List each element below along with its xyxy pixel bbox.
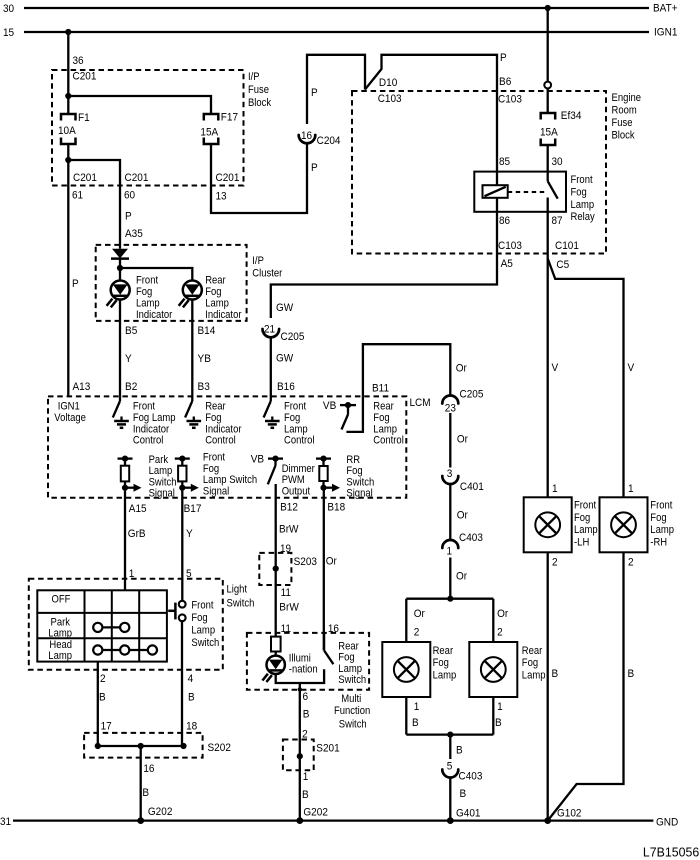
svg-text:Or: Or bbox=[456, 363, 467, 375]
svg-text:C204: C204 bbox=[317, 135, 341, 147]
LED front fog lamp indicator bbox=[107, 275, 173, 322]
svg-text:30: 30 bbox=[3, 3, 14, 15]
svg-text:IGN1: IGN1 bbox=[58, 401, 80, 413]
svg-text:Front: Front bbox=[284, 401, 306, 413]
lamp E1 Front Fog Lamp -LH bbox=[524, 497, 598, 552]
svg-text:Y: Y bbox=[186, 528, 193, 540]
ground node G202 middle bbox=[296, 817, 303, 824]
svg-text:1: 1 bbox=[414, 701, 420, 713]
svg-text:1: 1 bbox=[303, 771, 309, 783]
wire RH lamp ground to G102 bbox=[548, 552, 635, 820]
svg-text:B: B bbox=[552, 668, 559, 680]
svg-text:Indicator: Indicator bbox=[205, 309, 242, 321]
light switch park contacts bbox=[93, 623, 129, 632]
rear fog lamp switch blade bbox=[324, 633, 366, 686]
wire front indicator to LCM B2 bbox=[120, 299, 137, 396]
svg-text:16: 16 bbox=[143, 763, 154, 775]
svg-text:Lamp: Lamp bbox=[205, 298, 229, 310]
svg-text:15: 15 bbox=[3, 27, 14, 39]
wire D10 jog to B6 and down to relay 85 bbox=[365, 52, 522, 185]
svg-text:1: 1 bbox=[497, 701, 503, 713]
svg-text:Indicator: Indicator bbox=[133, 423, 170, 435]
svg-text:Control: Control bbox=[284, 435, 315, 447]
svg-text:S203: S203 bbox=[294, 556, 317, 568]
connector C103 pin D10 bbox=[378, 77, 402, 105]
svg-text:Light: Light bbox=[227, 583, 248, 595]
relay switch blade 30-87 bbox=[548, 181, 558, 199]
svg-text:Signal: Signal bbox=[203, 485, 229, 497]
svg-text:Switch: Switch bbox=[227, 597, 255, 609]
svg-text:Fog: Fog bbox=[574, 512, 590, 524]
splice S201 bbox=[283, 740, 340, 819]
rail 30 BAT+ bbox=[3, 3, 678, 16]
connector ring on BAT+ feed bbox=[544, 82, 551, 89]
wire fog switch pin 4 to S202 bbox=[182, 621, 197, 746]
engine room fuse block box bbox=[352, 91, 641, 254]
svg-text:VB: VB bbox=[251, 454, 264, 466]
I/P cluster box bbox=[96, 245, 283, 321]
svg-text:B: B bbox=[412, 717, 419, 729]
svg-text:S201: S201 bbox=[316, 743, 339, 755]
wire MFS pin 6 to S201 bbox=[298, 683, 310, 821]
wire light switch pin 2 to S202 bbox=[98, 662, 112, 746]
svg-text:1: 1 bbox=[552, 483, 558, 495]
svg-text:3: 3 bbox=[447, 468, 453, 480]
svg-text:B: B bbox=[99, 692, 106, 704]
wire C205-23 to C401 bbox=[450, 413, 468, 468]
svg-text:11: 11 bbox=[281, 587, 291, 599]
wire diode to indicators bbox=[119, 259, 121, 282]
svg-text:VB: VB bbox=[323, 400, 336, 412]
svg-text:Control: Control bbox=[205, 435, 236, 447]
LCM front fog lamp control driver switch bbox=[264, 396, 315, 446]
svg-text:YB: YB bbox=[198, 353, 211, 365]
svg-text:Fog: Fog bbox=[522, 657, 538, 669]
svg-text:Fog: Fog bbox=[346, 465, 362, 477]
svg-text:IGN1: IGN1 bbox=[654, 27, 677, 39]
svg-text:B16: B16 bbox=[277, 381, 295, 393]
svg-text:Rear: Rear bbox=[205, 275, 226, 287]
svg-text:P: P bbox=[311, 162, 318, 174]
svg-text:Lamp Switch: Lamp Switch bbox=[203, 474, 257, 486]
svg-text:C103: C103 bbox=[498, 240, 522, 252]
svg-text:Lamp: Lamp bbox=[571, 199, 595, 211]
svg-text:B: B bbox=[456, 744, 463, 756]
svg-text:C205: C205 bbox=[460, 389, 484, 401]
wire C204 up and over to D10 bbox=[307, 55, 365, 124]
svg-text:Fog: Fog bbox=[205, 412, 221, 424]
svg-text:L7B15056: L7B15056 bbox=[643, 846, 699, 860]
svg-text:Lamp: Lamp bbox=[191, 624, 215, 636]
svg-text:GND: GND bbox=[656, 817, 678, 829]
svg-text:B: B bbox=[188, 692, 195, 704]
svg-text:Fuse: Fuse bbox=[248, 84, 269, 96]
svg-text:F1: F1 bbox=[78, 112, 90, 124]
svg-text:LCM: LCM bbox=[410, 397, 431, 409]
LED rear fog lamp indicator bbox=[179, 275, 242, 322]
svg-text:B5: B5 bbox=[125, 325, 137, 337]
multi function switch box bbox=[247, 633, 370, 730]
wire IGN1 to fuse F1 (circuit 36) bbox=[68, 32, 96, 114]
svg-text:RR: RR bbox=[346, 454, 360, 466]
svg-text:Block: Block bbox=[248, 97, 272, 109]
svg-text:Or: Or bbox=[456, 570, 467, 582]
svg-text:A5: A5 bbox=[501, 258, 513, 270]
wire F17 out (circuit 13) to C204 bbox=[211, 144, 318, 214]
connector C403 pin 1 bbox=[442, 532, 483, 558]
svg-text:Park: Park bbox=[149, 454, 169, 466]
svg-text:Front: Front bbox=[136, 275, 158, 287]
svg-text:60: 60 bbox=[124, 190, 135, 202]
diode D1 bbox=[111, 249, 129, 259]
wire C403 to rear lamp split bbox=[450, 558, 467, 599]
wire split to left rear lamp bbox=[406, 599, 425, 642]
svg-text:G202: G202 bbox=[303, 807, 328, 819]
LCM RR fog switch signal input (resistor) bbox=[316, 454, 374, 500]
wire F1 out (circuit 61) to LCM A13 bbox=[68, 144, 97, 396]
svg-text:6: 6 bbox=[303, 691, 309, 703]
svg-text:-LH: -LH bbox=[574, 537, 589, 549]
svg-text:V: V bbox=[552, 362, 559, 374]
svg-text:Fog: Fog bbox=[338, 652, 354, 664]
svg-text:Fog: Fog bbox=[136, 286, 152, 298]
svg-text:21: 21 bbox=[264, 324, 275, 336]
wire Ef34 to relay pin 30 bbox=[499, 145, 563, 181]
svg-text:Or: Or bbox=[457, 433, 468, 445]
svg-text:C103: C103 bbox=[498, 94, 522, 106]
light switch contact table bbox=[37, 590, 167, 662]
svg-text:B11: B11 bbox=[372, 382, 389, 394]
svg-text:Lamp: Lamp bbox=[48, 650, 72, 662]
svg-text:Lamp: Lamp bbox=[136, 298, 160, 310]
rail 31 GND bbox=[0, 816, 678, 829]
svg-text:F17: F17 bbox=[221, 112, 238, 124]
svg-text:B6: B6 bbox=[499, 76, 511, 88]
svg-text:Fog: Fog bbox=[650, 512, 666, 524]
svg-text:2: 2 bbox=[100, 673, 106, 685]
svg-text:B: B bbox=[302, 789, 309, 801]
svg-text:30: 30 bbox=[552, 156, 563, 168]
I/P fuse block box bbox=[52, 70, 272, 186]
svg-text:G102: G102 bbox=[557, 808, 582, 820]
svg-text:Front: Front bbox=[574, 500, 596, 512]
svg-text:Fog: Fog bbox=[191, 612, 207, 624]
wire relay 87 split to front fog lamps bbox=[548, 259, 635, 498]
svg-text:10A: 10A bbox=[58, 125, 76, 137]
svg-text:Lamp: Lamp bbox=[433, 669, 457, 681]
wire resistor to LED bbox=[275, 652, 277, 656]
svg-text:GW: GW bbox=[276, 353, 294, 365]
svg-text:G401: G401 bbox=[456, 807, 481, 819]
svg-text:Rear: Rear bbox=[433, 645, 454, 657]
node C (branch to cluster) bbox=[65, 157, 71, 163]
LCM IGN1 voltage input label bbox=[54, 401, 86, 424]
svg-text:Indicator: Indicator bbox=[136, 309, 173, 321]
front fog lamp switch (momentary) bbox=[168, 599, 219, 649]
svg-text:V: V bbox=[628, 362, 635, 374]
wire S202 to G202 bbox=[141, 746, 173, 821]
svg-text:Lamp: Lamp bbox=[373, 423, 397, 435]
svg-text:2: 2 bbox=[628, 557, 634, 569]
wire to fuse F17 bbox=[68, 96, 211, 114]
svg-text:P: P bbox=[125, 211, 132, 223]
svg-text:B: B bbox=[460, 788, 467, 800]
svg-text:Rear: Rear bbox=[338, 640, 359, 652]
svg-text:31: 31 bbox=[0, 816, 11, 828]
svg-text:13: 13 bbox=[216, 191, 227, 203]
svg-text:Switch: Switch bbox=[191, 637, 219, 649]
svg-text:Lamp: Lamp bbox=[522, 669, 546, 681]
svg-text:-nation: -nation bbox=[289, 663, 318, 675]
relay pin 86 wire to C205 bbox=[271, 198, 522, 318]
wire LH lamp ground to G102 bbox=[548, 552, 559, 820]
svg-text:2: 2 bbox=[414, 626, 420, 638]
svg-text:Rear: Rear bbox=[373, 401, 394, 413]
connector C403 pin 5 bbox=[442, 761, 482, 783]
LCM front fog indicator driver switch bbox=[113, 396, 176, 446]
ground node G102 bbox=[544, 808, 581, 824]
svg-text:Engine: Engine bbox=[612, 92, 642, 104]
svg-text:Voltage: Voltage bbox=[54, 412, 86, 424]
svg-text:61: 61 bbox=[72, 190, 83, 202]
svg-text:BrW: BrW bbox=[279, 524, 299, 536]
svg-text:Signal: Signal bbox=[346, 488, 372, 500]
svg-text:GW: GW bbox=[276, 302, 294, 314]
svg-text:B14: B14 bbox=[198, 325, 216, 337]
svg-text:C205: C205 bbox=[281, 331, 305, 343]
svg-text:B2: B2 bbox=[125, 381, 137, 393]
svg-text:Fuse: Fuse bbox=[612, 117, 633, 129]
LCM front fog lamp switch signal input (resistor) bbox=[175, 452, 257, 498]
svg-text:C5: C5 bbox=[556, 259, 569, 271]
light switch head contacts bbox=[93, 645, 157, 654]
wire rear lamps join bbox=[406, 697, 502, 735]
svg-text:C201: C201 bbox=[73, 71, 97, 83]
rail 15 IGN1 bbox=[3, 27, 677, 40]
svg-text:15A: 15A bbox=[540, 126, 558, 138]
svg-text:BrW: BrW bbox=[279, 602, 299, 614]
svg-text:Or: Or bbox=[457, 510, 468, 522]
svg-text:Room: Room bbox=[612, 105, 637, 117]
wire LCM B18 to rear fog lamp switch bbox=[324, 488, 345, 651]
relay coil bbox=[483, 185, 508, 198]
svg-text:Fog: Fog bbox=[373, 412, 389, 424]
svg-text:C201: C201 bbox=[125, 172, 149, 184]
svg-text:GrB: GrB bbox=[128, 528, 146, 540]
svg-text:Fog: Fog bbox=[433, 657, 449, 669]
svg-text:Fog: Fog bbox=[284, 412, 300, 424]
svg-text:Control: Control bbox=[373, 435, 404, 447]
svg-text:A35: A35 bbox=[125, 228, 143, 240]
svg-text:Signal: Signal bbox=[149, 488, 175, 500]
svg-text:C201: C201 bbox=[216, 172, 240, 184]
svg-text:Or: Or bbox=[497, 608, 508, 620]
LED illumination bbox=[262, 652, 317, 682]
svg-text:-RH: -RH bbox=[650, 537, 667, 549]
svg-text:B3: B3 bbox=[198, 381, 210, 393]
node E rear lamp split bbox=[406, 596, 493, 602]
lamp E2 Front Fog Lamp -RH bbox=[600, 497, 675, 552]
node on rail 30 (BAT+ feed) bbox=[545, 5, 551, 11]
ground node G401 bbox=[447, 817, 454, 824]
svg-text:C403: C403 bbox=[459, 532, 483, 544]
svg-text:B: B bbox=[142, 787, 149, 799]
wire rear indicator to LCM B3 bbox=[192, 299, 215, 396]
svg-text:C201: C201 bbox=[73, 172, 97, 184]
svg-text:Front: Front bbox=[650, 500, 672, 512]
fuse Ef34 15A bbox=[540, 110, 581, 145]
svg-text:A15: A15 bbox=[129, 503, 147, 515]
svg-text:1: 1 bbox=[447, 545, 453, 557]
svg-text:C103: C103 bbox=[378, 93, 402, 105]
svg-text:C403: C403 bbox=[459, 770, 483, 782]
light switch box bbox=[29, 579, 255, 670]
svg-text:4: 4 bbox=[188, 673, 194, 685]
svg-text:C101: C101 bbox=[555, 240, 579, 252]
wire LCM B17 to front fog lamp switch bbox=[182, 488, 201, 601]
svg-text:Switch: Switch bbox=[346, 476, 374, 488]
splice S203 bbox=[259, 553, 317, 635]
svg-text:1: 1 bbox=[628, 483, 634, 495]
svg-text:Output: Output bbox=[282, 485, 310, 497]
svg-text:S202: S202 bbox=[208, 742, 231, 754]
svg-text:23: 23 bbox=[445, 403, 456, 415]
svg-text:Dimmer: Dimmer bbox=[282, 463, 315, 475]
node B (fuse feed split) bbox=[65, 93, 71, 99]
svg-text:Indicator: Indicator bbox=[205, 423, 242, 435]
svg-text:Lamp: Lamp bbox=[650, 524, 674, 536]
svg-text:5: 5 bbox=[447, 761, 453, 773]
ground node G202 left bbox=[137, 817, 144, 824]
svg-text:Switch: Switch bbox=[338, 674, 366, 686]
svg-text:P: P bbox=[311, 87, 318, 99]
wire C401 to C403 bbox=[450, 484, 468, 540]
svg-text:Lamp: Lamp bbox=[574, 524, 598, 536]
svg-text:Relay: Relay bbox=[571, 211, 596, 223]
svg-text:Lamp: Lamp bbox=[338, 663, 362, 675]
wire BAT+ to Ef34 bbox=[547, 8, 549, 82]
svg-text:I/P: I/P bbox=[252, 255, 264, 267]
svg-text:Fog Lamp: Fog Lamp bbox=[133, 412, 176, 424]
svg-text:36: 36 bbox=[73, 55, 84, 67]
svg-text:B: B bbox=[495, 717, 502, 729]
svg-text:Fog: Fog bbox=[205, 286, 221, 298]
connector C401 pin 3 bbox=[442, 468, 484, 493]
splice S202 bbox=[84, 733, 231, 758]
svg-text:Lamp: Lamp bbox=[48, 627, 72, 639]
svg-text:86: 86 bbox=[499, 215, 510, 227]
connector C205 pin 21 bbox=[263, 324, 305, 344]
node D (indicator split) bbox=[117, 265, 123, 271]
wire branch to rear indicator bbox=[120, 268, 192, 281]
svg-text:Front: Front bbox=[571, 174, 593, 186]
LCM park lamp switch signal input (resistor) bbox=[118, 454, 177, 500]
lamp E3 Rear Fog Lamp left bbox=[382, 642, 456, 697]
connector C205 pin 23 bbox=[442, 389, 483, 415]
LCM rear fog indicator driver switch bbox=[185, 396, 242, 446]
svg-text:Front: Front bbox=[133, 401, 155, 413]
svg-text:Rear: Rear bbox=[205, 401, 226, 413]
wire LCM B11 up and over to C205-23 bbox=[363, 344, 467, 396]
svg-text:Control: Control bbox=[133, 435, 164, 447]
svg-text:2: 2 bbox=[552, 557, 558, 569]
svg-text:16: 16 bbox=[301, 130, 312, 142]
svg-text:18: 18 bbox=[186, 720, 197, 732]
svg-text:Or: Or bbox=[326, 556, 337, 568]
svg-text:B18: B18 bbox=[327, 502, 345, 514]
wire ring to fuse Ef34 bbox=[547, 88, 549, 113]
svg-text:G202: G202 bbox=[148, 806, 173, 818]
svg-text:85: 85 bbox=[499, 156, 510, 168]
fuse F17 15A bbox=[200, 112, 238, 144]
svg-text:PWM: PWM bbox=[282, 474, 305, 486]
svg-text:Function: Function bbox=[334, 705, 370, 717]
node A (IGN1 tap) bbox=[65, 29, 71, 35]
svg-text:Switch: Switch bbox=[339, 718, 367, 730]
svg-text:Lamp: Lamp bbox=[149, 465, 173, 477]
wire branch 60 to I/P cluster bbox=[68, 160, 148, 249]
svg-text:2: 2 bbox=[497, 626, 503, 638]
lamp E4 Rear Fog Lamp right bbox=[469, 642, 545, 697]
relay U1 Front Fog Lamp Relay box bbox=[474, 172, 595, 224]
svg-text:Fog: Fog bbox=[203, 463, 219, 475]
relay pin 87 stub bbox=[548, 198, 579, 272]
fuse F1 10A bbox=[58, 112, 90, 144]
svg-text:C401: C401 bbox=[460, 481, 484, 493]
svg-text:P: P bbox=[500, 52, 507, 64]
svg-text:Multi: Multi bbox=[341, 693, 361, 705]
svg-text:15A: 15A bbox=[200, 126, 218, 138]
wire LCM B12 dimmer output to S203 bbox=[276, 484, 299, 637]
svg-text:Front: Front bbox=[203, 452, 225, 464]
svg-text:B12: B12 bbox=[280, 502, 298, 514]
LCM box bbox=[48, 396, 431, 497]
svg-text:Cluster: Cluster bbox=[252, 267, 282, 279]
svg-text:Y: Y bbox=[125, 353, 132, 365]
svg-text:B: B bbox=[628, 668, 635, 680]
wire C205 to LCM B16 bbox=[271, 337, 295, 396]
svg-text:B17: B17 bbox=[184, 503, 202, 515]
connector C204 pin 16 bbox=[299, 130, 341, 147]
wire LED to switch contact bbox=[276, 669, 324, 683]
svg-text:A13: A13 bbox=[73, 381, 91, 393]
svg-text:Fog: Fog bbox=[571, 186, 587, 198]
svg-text:Rear: Rear bbox=[522, 645, 543, 657]
svg-text:Or: Or bbox=[414, 608, 425, 620]
svg-text:D10: D10 bbox=[379, 77, 397, 89]
svg-text:I/P: I/P bbox=[248, 71, 260, 83]
node F rear lamp ground join bbox=[447, 732, 463, 760]
LCM rear fog lamp control switch (VB) bbox=[323, 396, 404, 446]
illumination resistor bbox=[271, 637, 281, 652]
svg-text:Lamp: Lamp bbox=[284, 423, 308, 435]
relay actuator dashed link bbox=[508, 191, 545, 193]
svg-text:B: B bbox=[303, 708, 310, 720]
svg-text:Front: Front bbox=[191, 599, 213, 611]
svg-text:Ef34: Ef34 bbox=[561, 110, 582, 122]
wire LCM A15 to light switch bbox=[125, 488, 147, 591]
svg-text:Block: Block bbox=[612, 130, 636, 142]
svg-text:87: 87 bbox=[552, 215, 563, 227]
wire C403-5 to G401 bbox=[450, 778, 480, 821]
LCM dimmer PWM output switch (VB) bbox=[251, 454, 315, 498]
svg-text:Switch: Switch bbox=[149, 476, 177, 488]
svg-text:P: P bbox=[72, 278, 79, 290]
svg-text:BAT+: BAT+ bbox=[653, 3, 678, 15]
wire split to right rear lamp bbox=[493, 599, 508, 642]
svg-text:17: 17 bbox=[101, 720, 112, 732]
svg-text:OFF: OFF bbox=[52, 594, 71, 606]
